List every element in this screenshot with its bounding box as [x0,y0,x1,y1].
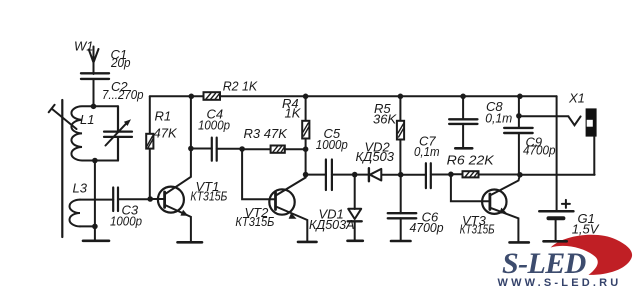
svg-text:1,5V: 1,5V [572,222,600,237]
inductor L3 [70,200,81,227]
ground C8 [455,147,472,150]
wire R4 top [305,96,307,121]
wire jack sleeve [593,137,595,175]
svg-text:R2 1K: R2 1K [223,79,259,94]
node VT1 base [147,196,153,202]
node VT2 collector [303,172,309,178]
node C9 rail [517,94,523,100]
capacitor C4 [212,138,217,161]
wire C7 to VT3 base node [431,174,451,176]
tuning slug arrow [49,105,77,129]
transistor VT2 [269,175,307,242]
transistor VT1 [150,149,191,243]
wire R5 bottom [399,140,401,175]
resistor R3 [271,146,285,153]
svg-text:7...270p: 7...270p [102,87,144,102]
ground VT3 emitter [510,241,529,244]
svg-text:0,1m: 0,1m [414,144,440,159]
node X1 tap [516,113,522,119]
wire L3 top to C3 [80,199,113,201]
svg-text:20p: 20p [110,55,130,70]
capacitor C9 [504,116,532,175]
node R5 rail [398,94,404,100]
svg-text:1000p: 1000p [198,118,230,133]
wire C5 to VD node [332,174,355,176]
node VD1 / VD2 [352,172,358,178]
resistor R1 [146,134,153,149]
variable capacitor C2 [104,106,132,160]
svg-text:L3: L3 [73,181,88,196]
svg-text:КД503А: КД503А [309,217,355,232]
resistor R5 [397,121,404,140]
svg-text:R3 47K: R3 47K [244,126,289,141]
battery G1 [539,200,573,241]
wire battery feed [556,96,558,211]
svg-text:4700p: 4700p [523,142,556,157]
svg-text:WWW.S-LED.RU: WWW.S-LED.RU [498,277,622,289]
svg-text:0,1m: 0,1m [485,111,512,126]
wire R3 to R4 [285,148,306,150]
wire to R3 [242,148,271,150]
wire VT1 collector vertical [190,96,192,148]
ground C6 [391,240,411,243]
core of L1/L3 [61,100,63,237]
wire R1 top [149,96,151,134]
capacitor C7 [426,163,431,188]
svg-text:X1: X1 [568,91,585,106]
capacitor C3 [113,188,118,212]
svg-text:S-LED: S-LED [502,247,586,280]
diode VD1 [348,175,362,241]
node R3 / R4 [303,146,309,152]
svg-text:КТ315Б: КТ315Б [460,222,495,237]
ground VT2 emitter [298,241,317,244]
wire R6 to C9 node [479,174,520,176]
wire rail to X1 tap [518,96,520,116]
wire X1 tap to plug [519,115,569,117]
logo red swoosh [551,235,632,275]
resistor R2 [204,92,221,100]
connector X1 jack body [586,108,597,136]
wire C3 to VT1 base [118,198,150,200]
capacitor C5 [326,160,332,191]
wire to C5 [306,174,326,176]
resistor R4 [302,121,309,139]
supply rail wire [150,95,557,97]
svg-text:КД503: КД503 [356,149,395,164]
svg-text:1K: 1K [285,106,302,121]
wire R1 bottom [149,149,151,199]
svg-text:R6 22K: R6 22K [447,153,495,168]
node R5 / C6 / C7 [398,172,404,178]
svg-text:L1: L1 [80,112,94,127]
wire to C7 [401,174,426,176]
resistor R6 [463,171,479,177]
node C4 / R3 / VT2 base [239,146,245,152]
capacitor C6 [388,175,416,241]
ground VT1 emitter [178,241,203,244]
wire VT3 base branch [451,174,490,201]
ground tank [83,240,109,243]
node C8 rail [460,94,466,100]
svg-text:W1: W1 [74,39,94,54]
svg-text:КТ315Б: КТ315Б [190,189,227,204]
ground battery [544,240,567,243]
node tank bottom [92,158,98,164]
node VT3 base [448,172,454,178]
node C9 bottom / VT3 collector [517,172,523,178]
wire to R6 [451,173,463,175]
inductor L1 [71,106,118,160]
svg-text:1000p: 1000p [110,214,142,229]
wire L3 bottom [80,225,95,227]
diode VD2 [355,168,401,181]
svg-text:1000p: 1000p [316,137,348,152]
connector X1 plug contact [568,116,580,125]
capacitor C1 [81,73,109,79]
node L3 bottom [92,224,98,230]
ground VD1 [348,240,363,243]
wire VT2 base branch [242,149,275,199]
svg-text:36K: 36K [373,112,397,127]
node rail C4 [189,94,195,100]
node tank top [91,104,97,110]
transistor VT3 [482,175,520,242]
svg-text:4700p: 4700p [410,220,444,235]
node VT1 collector / C4 [188,146,194,152]
wire R5 top [399,96,401,121]
capacitor C8 [449,96,477,147]
wire tank bottom to L3 bottom [94,161,96,227]
wire C4 left [191,148,212,150]
svg-text:КТ315Б: КТ315Б [235,214,274,229]
svg-text:R1: R1 [155,109,172,124]
wire C4 right [217,148,242,150]
wire phones return [520,174,595,176]
wire R4 bottom [305,139,307,175]
wire to ground tank [94,226,96,240]
node R4 rail [303,94,309,100]
wire antenna to tank [93,79,95,106]
antenna W1 [89,47,99,75]
svg-text:47K: 47K [154,126,178,141]
